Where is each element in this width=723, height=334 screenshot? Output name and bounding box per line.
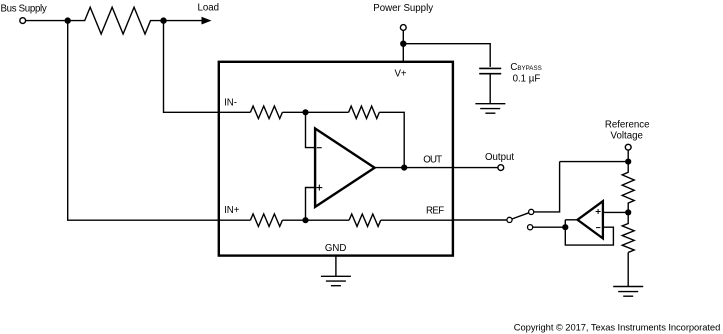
IC boundary: current-sense amplifier xyxy=(219,62,453,256)
ground: reference divider xyxy=(613,287,643,297)
svg-text:Load: Load xyxy=(198,2,220,13)
junction: divider top node xyxy=(625,159,631,165)
terminal: Power Supply xyxy=(400,25,406,31)
wire: buffer output (apex) to feedback node xyxy=(565,219,577,221)
wire: OUT pin to output terminal xyxy=(404,167,498,169)
wire: inverting node to feedback resistor xyxy=(306,111,349,113)
wire: power supply stub to V+ pin xyxy=(402,30,404,61)
wire: divider top node to switch branch xyxy=(560,161,629,163)
junction: shunt left node xyxy=(65,17,71,23)
wire: upper throw to divider top node xyxy=(534,162,560,212)
wire: REF pin to switch common xyxy=(453,219,507,221)
junction: shunt right node xyxy=(160,17,166,23)
svg-text:V+: V+ xyxy=(394,69,406,80)
resistor: IN+ input xyxy=(250,214,282,227)
svg-text:Copyright © 2017, Texas Instru: Copyright © 2017, Texas Instruments Inco… xyxy=(514,322,721,333)
op-amp U1 xyxy=(315,129,375,207)
wire: divider lower to ground xyxy=(627,252,629,286)
resistor: IN- input xyxy=(250,106,282,119)
svg-text:Output: Output xyxy=(485,152,514,163)
svg-text:OUT: OUT xyxy=(423,155,442,166)
switch: blade xyxy=(512,213,529,219)
junction: divider mid node xyxy=(625,209,631,215)
switch: common contact xyxy=(507,217,512,222)
resistor: divider lower xyxy=(622,212,634,252)
svg-text:GND: GND xyxy=(325,243,347,254)
switch: throw contact to buffer xyxy=(528,225,533,230)
wire: IN- sense line (shunt right node down and into box) xyxy=(164,21,219,113)
wire: non-inverting node to REF resistor xyxy=(306,219,350,221)
terminal: Bus Supply xyxy=(20,18,26,24)
label: Reference Voltage xyxy=(605,119,650,141)
wire: reference terminal to divider top node xyxy=(627,150,629,162)
wire: IN+ pin to input resistor xyxy=(220,219,250,221)
wire: inverting node to op-amp - input xyxy=(306,112,315,147)
svg-text:Voltage: Voltage xyxy=(611,130,643,141)
arrowhead: load xyxy=(202,17,212,25)
value label: C_BYPASS 0.1 uF xyxy=(510,62,541,84)
resistor: REF xyxy=(349,214,381,226)
wire: IN- pin to input resistor xyxy=(220,111,250,113)
switch: throw contact to divider xyxy=(529,209,534,214)
svg-text:Reference: Reference xyxy=(605,119,650,130)
wire: lower throw to buffer output node xyxy=(533,226,566,228)
svg-text:Bus Supply: Bus Supply xyxy=(1,3,47,14)
wire: input resistor to non-inverting node xyxy=(282,219,305,221)
wire: non-inverting node to op-amp + input xyxy=(306,188,315,221)
wire: IN+ sense line (shunt left node down and into box) xyxy=(68,21,219,221)
junction: buffer output node xyxy=(562,224,568,230)
resistor: divider upper xyxy=(622,162,634,213)
wire: op-amp output to OUT node xyxy=(375,167,405,169)
junction: non-inverting input node xyxy=(302,217,308,223)
wire: divider mid node to buffer + input xyxy=(603,211,628,213)
junction: V+ bypass tap xyxy=(400,41,406,47)
svg-text:IN-: IN- xyxy=(224,97,237,108)
svg-text:CBYPASS: CBYPASS xyxy=(510,62,541,73)
wire: GND pin to ground xyxy=(335,256,337,276)
svg-text:Power Supply: Power Supply xyxy=(373,3,433,14)
op-amp U2 reference buffer xyxy=(578,201,603,238)
wire: to load with arrowhead xyxy=(164,20,203,22)
svg-text:0.1 µF: 0.1 µF xyxy=(513,73,541,84)
wire: V+ node to bypass capacitor xyxy=(403,44,490,67)
junction: inverting input node xyxy=(302,109,308,115)
resistor: shunt xyxy=(68,7,164,34)
resistor: feedback xyxy=(349,106,380,118)
wire: feedback resistor down to OUT node xyxy=(379,112,404,167)
terminal: Output xyxy=(498,165,504,171)
wire: buffer feedback loop xyxy=(565,220,613,245)
capacitor C_BYPASS xyxy=(479,68,501,103)
ground: bypass capacitor xyxy=(475,104,505,114)
ground: IC GND xyxy=(321,276,351,285)
terminal: Reference Voltage xyxy=(625,144,631,150)
wire: REF resistor to REF pin xyxy=(381,219,453,221)
wire: bus supply terminal to shunt node xyxy=(26,20,65,22)
junction: OUT node xyxy=(401,165,407,171)
svg-text:IN+: IN+ xyxy=(224,205,240,216)
svg-text:REF: REF xyxy=(426,205,444,216)
wire: input resistor to inverting node xyxy=(282,111,305,113)
